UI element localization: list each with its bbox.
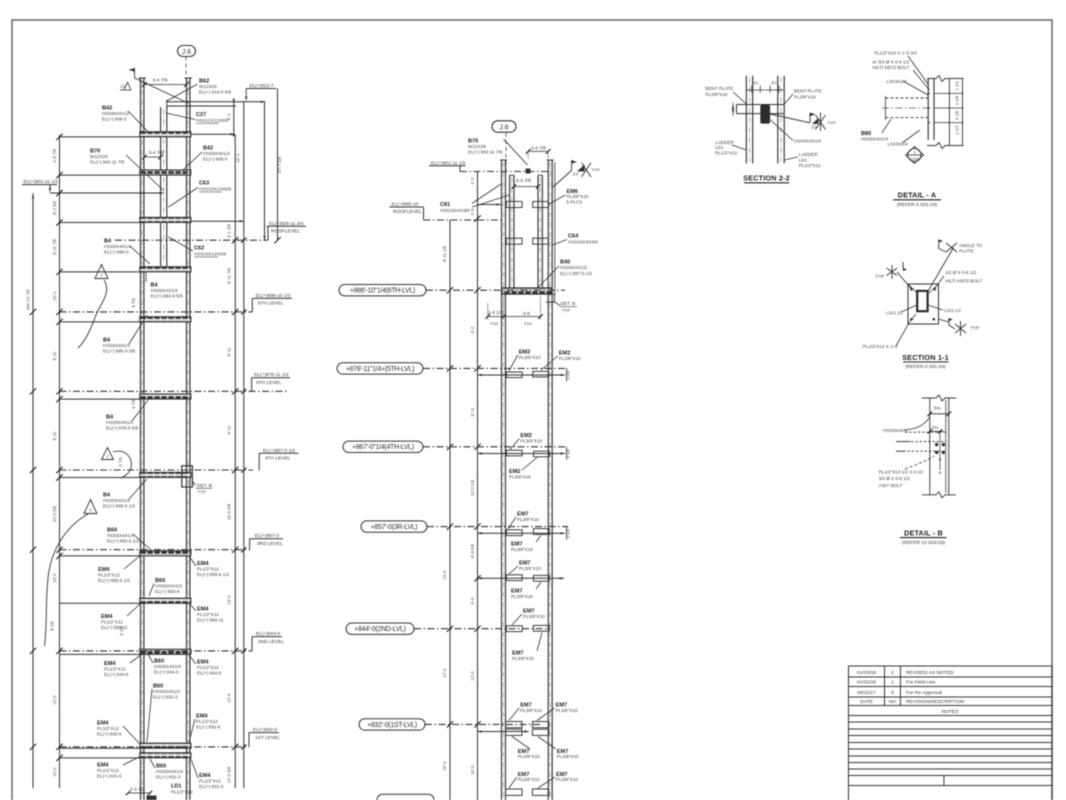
- level oval 2ND-LVL: [346, 623, 414, 634]
- plates EM7 at 2nd: [506, 626, 522, 632]
- svg-text:BENT PLATE: BENT PLATE: [705, 86, 733, 91]
- svg-text:HSS5X4X1/4: HSS5X4X1/4: [155, 584, 183, 589]
- svg-text:10'-0: 10'-0: [442, 761, 447, 771]
- svg-text:PL3/8"X10: PL3/8"X10: [520, 708, 542, 713]
- svg-text:9'-11: 9'-11: [227, 347, 232, 357]
- svg-text:EL(+) 892-6 5/8: EL(+) 892-6 5/8: [151, 294, 183, 299]
- svg-text:HSS16X4X3/8: HSS16X4X3/8: [440, 208, 470, 213]
- level oval 1ST-LVL: [359, 719, 425, 730]
- svg-text:EL(+) 896-0: EL(+) 896-0: [104, 250, 129, 255]
- column C27: [160, 107, 162, 132]
- middle column right chord: [547, 160, 549, 800]
- svg-text:2-4 7/8: 2-4 7/8: [516, 178, 531, 184]
- column C62 segment: [160, 223, 162, 267]
- svg-text:EL(+) 850-9: EL(+) 850-9: [155, 589, 180, 594]
- section 1-1 angle-to-plate leader: [928, 248, 954, 293]
- EM6 plates upper: [506, 202, 522, 208]
- section 1-1 corner bolts: [910, 288, 913, 291]
- svg-text:EL(+) 902-11 7/8: EL(+) 902-11 7/8: [468, 150, 503, 155]
- ladder LD1 rung block: [147, 796, 157, 800]
- detail A break lines: [927, 76, 964, 82]
- left extension lines at upper beams: [60, 136, 140, 138]
- DET B bracket middle: [546, 294, 555, 302]
- svg-text:PL1/2"X12: PL1/2"X12: [97, 726, 119, 731]
- svg-text:PL1/2"X12: PL1/2"X12: [101, 620, 123, 625]
- svg-text:PL3/8"X10: PL3/8"X10: [518, 754, 540, 759]
- detail B break lines: [922, 395, 956, 401]
- svg-text:16'-1: 16'-1: [52, 291, 57, 301]
- beam at 3rd: [140, 551, 191, 556]
- svg-text:1 1/2: 1 1/2: [955, 81, 960, 91]
- middle dimension chain x=450: [449, 220, 451, 800]
- svg-text:1ST LEVEL: 1ST LEVEL: [255, 735, 280, 741]
- detail A vertical plate: [927, 79, 929, 140]
- beam at 6th strut: [140, 267, 191, 272]
- svg-text:01/02/18: 01/02/18: [857, 680, 876, 686]
- svg-text:EL(+) 832-6: EL(+) 832-6: [196, 725, 221, 730]
- svg-text:+886'-10"1/4(6TH-LVL): +886'-10"1/4(6TH-LVL): [350, 288, 415, 295]
- svg-text:5 PLCS: 5 PLCS: [567, 199, 583, 204]
- bottom row divider: [943, 776, 945, 786]
- svg-text:EL(+) 875-6 5/8: EL(+) 875-6 5/8: [106, 426, 138, 431]
- beam below 6th: [140, 317, 191, 322]
- dash-dot level lines left elevation: [115, 239, 268, 241]
- svg-text:5TH LEVEL: 5TH LEVEL: [256, 380, 282, 386]
- middle column inner member right: [537, 175, 539, 288]
- svg-text:16'-1: 16'-1: [236, 153, 241, 163]
- svg-text:PL3/8"X10: PL3/8"X10: [511, 547, 533, 552]
- svg-text:PL1/2"X12: PL1/2"X12: [199, 779, 221, 784]
- beam at 4th with DET B box: [140, 472, 191, 477]
- beam at 5th: [140, 394, 191, 399]
- section 1-1 base plate: [908, 284, 939, 324]
- svg-text:PL3/8"X10: PL3/8"X10: [520, 439, 542, 444]
- svg-text:PL3/8"X10: PL3/8"X10: [519, 355, 541, 360]
- detail A column lines: [948, 79, 950, 146]
- svg-text:HSS12X12X5/8: HSS12X12X5/8: [199, 187, 232, 192]
- svg-text:10'-0 1/8: 10'-0 1/8: [470, 479, 475, 496]
- svg-text:PL3/8"X10: PL3/8"X10: [557, 754, 579, 759]
- column C63 segment: [160, 137, 162, 170]
- svg-text:12'-0: 12'-0: [52, 695, 57, 705]
- plates EM7 mid pair: [506, 575, 522, 581]
- section 2-2 weld symbol TYP: [770, 114, 810, 123]
- svg-text:12'-0: 12'-0: [227, 693, 232, 703]
- short right dim stubs: [566, 368, 568, 381]
- svg-text:TYP: TYP: [828, 121, 836, 126]
- svg-text:HSS5X4X1/4: HSS5X4X1/4: [103, 498, 131, 503]
- right dimension chain x=236: [233, 101, 235, 134]
- svg-text:DATE: DATE: [860, 699, 873, 705]
- svg-text:EL(+) 850-11: EL(+) 850-11: [197, 618, 224, 623]
- svg-text:8'-2 5/8: 8'-2 5/8: [52, 200, 57, 215]
- beam B42 at EL 909-0: [140, 132, 191, 137]
- beam B40 at 6th level: [502, 288, 552, 294]
- left column left chord: [139, 78, 141, 800]
- svg-text:HSS8X4X1/4: HSS8X4X1/4: [861, 137, 889, 142]
- section 1-1 HSS tube: [917, 291, 927, 311]
- right dimension line x=264: [264, 101, 266, 240]
- svg-text:8 1/8: 8 1/8: [119, 626, 124, 636]
- section 2-2 HSS6X4 tube: [760, 105, 770, 124]
- svg-text:EL(+) 844-5: EL(+) 844-5: [197, 671, 222, 676]
- svg-text:2¾: 2¾: [932, 425, 940, 431]
- svg-text:PL3/8"X10: PL3/8"X10: [519, 566, 541, 571]
- svg-text:0: 0: [891, 690, 894, 696]
- level oval 5TH-LVL: [337, 363, 423, 374]
- svg-text:1/2: 1/2: [120, 84, 126, 89]
- svg-text:PL3/8"X10: PL3/8"X10: [556, 777, 578, 782]
- svg-text:6 7/8: 6 7/8: [131, 399, 136, 409]
- dash-dot at EL 895-10 roof: [424, 219, 503, 221]
- svg-text:HSS5X4X1/4: HSS5X4X1/4: [103, 343, 131, 348]
- svg-text:NO: NO: [889, 699, 897, 705]
- svg-text:8'-11 1/8: 8'-11 1/8: [442, 245, 447, 262]
- revision table column dividers: [884, 666, 886, 706]
- beam below 3rd: [140, 598, 191, 603]
- beam below 1st: [140, 753, 191, 758]
- svg-text:+832'-0(1ST-LVL): +832'-0(1ST-LVL): [367, 722, 417, 729]
- svg-text:2ND LEVEL: 2ND LEVEL: [258, 639, 284, 645]
- plates EM2 at 5th: [506, 372, 522, 378]
- svg-text:13'-0: 13'-0: [442, 570, 447, 580]
- svg-text:EL(+) 831-6: EL(+) 831-6: [97, 774, 122, 779]
- title block revision table: [849, 665, 1053, 667]
- svg-text:8'-9 5/8: 8'-9 5/8: [470, 543, 475, 558]
- svg-text:PL1/2"X13 1/2 X 0-10: PL1/2"X13 1/2 X 0-10: [879, 470, 924, 475]
- plates EM7 at 1st stacked: [506, 722, 522, 728]
- svg-text:PL1/2"X12: PL1/2"X12: [715, 151, 737, 156]
- svg-text:4½: 4½: [753, 81, 759, 86]
- svg-text:HSS16X12X3/8: HSS16X12X3/8: [194, 252, 227, 257]
- svg-text:L3X3 1/2: L3X3 1/2: [886, 311, 903, 316]
- svg-text:2-4 7/8: 2-4 7/8: [531, 145, 546, 151]
- svg-text:1/2 Ø X 0-6 1/2: 1/2 Ø X 0-6 1/2: [945, 270, 977, 275]
- svg-text:L3X3 1/2: L3X3 1/2: [944, 308, 961, 313]
- svg-text:1 1/2: 1 1/2: [955, 125, 960, 135]
- svg-text:PL3/8"X10: PL3/8"X10: [705, 92, 727, 97]
- svg-text:4TH LEVEL: 4TH LEVEL: [265, 456, 291, 462]
- svg-text:ANGLE TO: ANGLE TO: [959, 243, 982, 248]
- svg-text:EL(+) 844-3: EL(+) 844-3: [154, 670, 179, 675]
- svg-text:LADDER: LADDER: [799, 152, 818, 157]
- svg-text:4'-9: 4'-9: [470, 208, 475, 216]
- dash-dot at EL 901-11: [460, 171, 551, 173]
- svg-text:EL(+) 856-6 1/2: EL(+) 856-6 1/2: [107, 539, 139, 544]
- svg-text:PL1/2"X12: PL1/2"X12: [104, 667, 126, 672]
- svg-text:L3X3X1/4: L3X3X1/4: [888, 142, 909, 147]
- svg-text:S28: S28: [911, 157, 919, 162]
- svg-text:EL(+) 855-6 1/2: EL(+) 855-6 1/2: [197, 572, 229, 577]
- svg-text:HILTI KBTZ BOLT: HILTI KBTZ BOLT: [945, 279, 982, 284]
- detail B column lines: [929, 398, 931, 495]
- arrow lines below levels middle column: [478, 374, 566, 376]
- level oval ground partial: [377, 794, 434, 800]
- svg-text:DETAIL - A: DETAIL - A: [898, 191, 937, 200]
- svg-text:PL3/8"X10: PL3/8"X10: [518, 777, 540, 782]
- svg-text:4-6: 4-6: [523, 311, 530, 317]
- svg-text:HSS8X4X1/2: HSS8X4X1/2: [102, 111, 130, 116]
- svg-text:EL(+) 832-3: EL(+) 832-3: [153, 695, 178, 700]
- svg-text:3 5/8: 3 5/8: [566, 370, 571, 380]
- level oval 6TH-LVL: [339, 285, 426, 296]
- svg-text:LD1: LD1: [799, 158, 808, 163]
- svg-text:(REFER-3 S01.04): (REFER-3 S01.04): [897, 202, 938, 208]
- middle column left chord: [501, 160, 503, 800]
- svg-text:HSS5X4X1/4: HSS5X4X1/4: [106, 420, 134, 425]
- revision triangle 2 lower: [84, 500, 97, 514]
- svg-text:ROOFLEVEL: ROOFLEVEL: [271, 229, 300, 235]
- svg-text:5¾: 5¾: [934, 406, 942, 412]
- beam at 1st: [140, 743, 191, 748]
- middle column inner member left: [509, 175, 511, 288]
- detail A keyplan bubble: [906, 147, 924, 164]
- svg-text:+844'-0(2ND-LVL): +844'-0(2ND-LVL): [354, 626, 405, 633]
- svg-text:TYP: TYP: [524, 322, 532, 327]
- svg-text:W12X26: W12X26: [199, 84, 217, 89]
- svg-text:09/11/17: 09/11/17: [857, 690, 876, 696]
- svg-text:+857'-0(3R-LVL): +857'-0(3R-LVL): [371, 524, 418, 531]
- middle dimension chain x=477.5: [477, 172, 479, 800]
- svg-text:W12X26: W12X26: [90, 154, 108, 159]
- svg-text:LADDER: LADDER: [715, 140, 734, 145]
- section 2-2 ladder rail left: [745, 76, 747, 164]
- svg-text:A307 BOLT: A307 BOLT: [879, 483, 903, 488]
- svg-text:(REFER-13 S03.03): (REFER-13 S03.03): [902, 540, 945, 546]
- svg-text:HSS8X4X¼: HSS8X4X¼: [883, 428, 908, 433]
- svg-text:3/4 Ø X 0-6 1/2: 3/4 Ø X 0-6 1/2: [879, 476, 911, 481]
- svg-text:4'-8 7/8: 4'-8 7/8: [52, 148, 57, 163]
- detail B bolts: [935, 443, 938, 446]
- svg-text:EL(+) 832-6: EL(+) 832-6: [97, 732, 122, 737]
- section 1-1 bottom right weld: [938, 319, 949, 322]
- right extension line below beam B42: [191, 133, 235, 135]
- detail A member B80 dashed: [886, 97, 929, 99]
- svg-text:13'-0: 13'-0: [52, 573, 57, 583]
- svg-text:5 7/8: 5 7/8: [118, 457, 123, 467]
- svg-text:HSS5X4X1/4: HSS5X4X1/4: [107, 533, 135, 538]
- svg-text:12'-0: 12'-0: [442, 668, 447, 678]
- section 2-2 bent plate: [737, 104, 784, 106]
- svg-text:9'-11: 9'-11: [52, 351, 57, 361]
- svg-text:PL1/2"X12: PL1/2"X12: [97, 768, 119, 773]
- svg-text:PL1/2"X12: PL1/2"X12: [799, 163, 821, 168]
- plates EM7 bottom: [506, 789, 522, 795]
- svg-text:TYP: TYP: [198, 489, 206, 494]
- section 2-2 top dims: [751, 86, 753, 94]
- svg-text:3 5/8: 3 5/8: [566, 448, 571, 458]
- svg-text:6'-6: 6'-6: [470, 597, 475, 605]
- svg-text:PL1/2"X12: PL1/2"X12: [197, 567, 219, 572]
- svg-text:4'-2: 4'-2: [227, 113, 232, 121]
- svg-text:PL3/8"X10: PL3/8"X10: [556, 708, 578, 713]
- svg-text:EL(+) 885-4 3/8: EL(+) 885-4 3/8: [103, 349, 135, 354]
- left column right chord: [185, 78, 187, 800]
- svg-text:W12X26: W12X26: [468, 144, 486, 149]
- svg-text:HSS8X4X1/2: HSS8X4X1/2: [560, 265, 588, 270]
- svg-text:1-1 1/2: 1-1 1/2: [130, 787, 145, 793]
- weld symbol TYP right of column top: [553, 171, 572, 188]
- svg-text:3-4 7/8: 3-4 7/8: [149, 150, 164, 156]
- svg-text:1: 1: [891, 680, 894, 686]
- svg-text:10'-0: 10'-0: [470, 765, 475, 775]
- svg-text:DET. B: DET. B: [561, 301, 576, 307]
- svg-text:HSS12X12X5/8: HSS12X12X5/8: [196, 118, 229, 123]
- level oval 4TH-LVL: [343, 441, 423, 452]
- right edge line: [554, 162, 556, 295]
- svg-text:J.6: J.6: [182, 49, 191, 56]
- beam at roof strut: [140, 217, 191, 222]
- svg-text:PL3/8"X10: PL3/8"X10: [512, 656, 534, 661]
- svg-text:6TH LEVEL: 6TH LEVEL: [258, 301, 284, 307]
- beam B62 top: [167, 101, 265, 103]
- svg-text:3 5/8: 3 5/8: [566, 528, 571, 538]
- svg-text:9'-11 7/8: 9'-11 7/8: [52, 238, 57, 255]
- grid bubble J.6 (middle elevation): [492, 121, 516, 132]
- svg-text:EL(+) 831-6: EL(+) 831-6: [199, 784, 224, 789]
- section 2-2 ladder rail right: [777, 76, 779, 164]
- weld flag at column top: [134, 68, 136, 78]
- right extension line at roof strut beam: [191, 220, 244, 222]
- dim 1-4 1/2 and 4-6 below B40: [487, 303, 489, 320]
- svg-text:9'-11 7/8: 9'-11 7/8: [227, 267, 232, 284]
- grid bubble J.6 (left elevation): [178, 46, 196, 57]
- svg-text:2: 2: [891, 670, 894, 676]
- left dimension chain x=33: [32, 193, 34, 788]
- detail B plate dashed lines: [905, 431, 946, 433]
- svg-text:12'-0: 12'-0: [470, 671, 475, 681]
- svg-text:LD1: LD1: [715, 145, 724, 150]
- svg-text:EL(+) 905-0: EL(+) 905-0: [203, 157, 228, 162]
- svg-text:(REFER-3 S01.04): (REFER-3 S01.04): [905, 364, 946, 370]
- svg-text:10'-0 5/8: 10'-0 5/8: [227, 503, 232, 520]
- right dimension line x=277.5: [277, 89, 279, 241]
- svg-text:TYP: TYP: [562, 308, 570, 313]
- svg-text:w/ 3/4 Ø X 0-6 1/2: w/ 3/4 Ø X 0-6 1/2: [872, 60, 909, 65]
- svg-text:J.6: J.6: [499, 125, 508, 132]
- line at EL 901-11 level: [50, 192, 164, 194]
- svg-text:9'-2: 9'-2: [470, 326, 475, 334]
- svg-text:164'-10 7/8: 164'-10 7/8: [26, 289, 31, 310]
- beam at 2nd: [140, 649, 191, 654]
- svg-text:01/03/18: 01/03/18: [857, 670, 876, 676]
- svg-text:TYP: TYP: [592, 168, 600, 173]
- svg-text:ROOFLEVEL: ROOFLEVEL: [393, 209, 422, 215]
- svg-text:13'-0: 13'-0: [227, 595, 232, 605]
- svg-text:HSS16X4X3/8: HSS16X4X3/8: [568, 240, 598, 245]
- svg-text:NOTES: NOTES: [942, 709, 960, 715]
- svg-text:PL1/2"X12: PL1/2"X12: [197, 665, 219, 670]
- svg-text:PL1/2"X12 X 1'-0: PL1/2"X12 X 1'-0: [863, 344, 898, 349]
- svg-text:PL1/2"X10 X 1'-0 3/4: PL1/2"X10 X 1'-0 3/4: [874, 51, 917, 56]
- svg-text:DETAIL - B: DETAIL - B: [904, 528, 943, 537]
- svg-text:PL3/8"X10: PL3/8"X10: [517, 517, 539, 522]
- svg-text:+867'-0"1/4(4TH-LVL): +867'-0"1/4(4TH-LVL): [352, 444, 414, 451]
- svg-text:SECTION 2-2: SECTION 2-2: [743, 174, 790, 183]
- svg-text:9'-11: 9'-11: [470, 407, 475, 417]
- svg-text:REVISED AS NOTED: REVISED AS NOTED: [906, 670, 954, 676]
- revision triangle 2 upper: [95, 265, 108, 279]
- level oval 3R-LVL: [361, 521, 427, 532]
- svg-text:EL(+) 844-5: EL(+) 844-5: [104, 672, 129, 677]
- svg-text:HSS6X4X1/4: HSS6X4X1/4: [794, 138, 822, 143]
- svg-text:4 1/8: 4 1/8: [955, 110, 960, 120]
- svg-text:4'-1 3/8: 4'-1 3/8: [227, 223, 232, 238]
- svg-text:1-4 1/2: 1-4 1/2: [488, 310, 503, 316]
- left extension lines at lower beams: [60, 271, 140, 273]
- svg-text:PL3/8"X10: PL3/8"X10: [523, 614, 545, 619]
- left dimension chain x=59.5: [59, 135, 61, 788]
- svg-text:3-4 7/8: 3-4 7/8: [153, 78, 168, 84]
- svg-text:EL(+) 865-5 1/2: EL(+) 865-5 1/2: [103, 504, 135, 509]
- svg-text:HSS8X4X1/2: HSS8X4X1/2: [203, 151, 231, 156]
- svg-text:PL1/2"X12: PL1/2"X12: [197, 612, 219, 617]
- svg-text:10'-0 5/8: 10'-0 5/8: [52, 505, 57, 522]
- svg-text:TYP: TYP: [875, 274, 884, 279]
- svg-text:HSS5X4X1/4: HSS5X4X1/4: [156, 769, 184, 774]
- plates EM2 at 4th: [506, 450, 522, 456]
- svg-text:4½: 4½: [771, 81, 777, 86]
- svg-text:PL3/8"X10: PL3/8"X10: [509, 475, 531, 480]
- svg-text:EL(+) 855-6 1/2: EL(+) 855-6 1/2: [98, 578, 130, 583]
- svg-text:For Field Use: For Field Use: [906, 680, 936, 686]
- svg-text:PLATE: PLATE: [959, 249, 973, 254]
- svg-text:1/2: 1/2: [811, 125, 817, 130]
- beam B42 at EL 905-0: [140, 170, 191, 175]
- svg-text:HILTI KBTZ BOLT: HILTI KBTZ BOLT: [872, 65, 909, 70]
- svg-text:+876'-11"1/4+(5TH-LVL): +876'-11"1/4+(5TH-LVL): [346, 366, 414, 373]
- svg-text:1/2: 1/2: [573, 172, 579, 177]
- svg-text:PL1/2"X12: PL1/2"X12: [98, 573, 120, 578]
- revision triangle 2 at 4th: [102, 448, 114, 460]
- svg-text:EL(+) 831-3: EL(+) 831-3: [156, 775, 181, 780]
- svg-text:TYP: TYP: [970, 326, 979, 331]
- svg-text:HSS5X4X1/4: HSS5X4X1/4: [153, 689, 181, 694]
- svg-text:3RD LEVEL: 3RD LEVEL: [257, 541, 283, 547]
- right dimension chain x=243.8: [243, 101, 245, 788]
- svg-text:HSS5X4X1/4: HSS5X4X1/4: [151, 288, 179, 293]
- svg-text:9'-11: 9'-11: [52, 431, 57, 441]
- svg-text:10'-0 3/8: 10'-0 3/8: [227, 766, 232, 783]
- svg-text:47'-7 5/8: 47'-7 5/8: [277, 156, 282, 173]
- svg-text:10'-0: 10'-0: [52, 767, 57, 777]
- svg-text:BENT PLATE: BENT PLATE: [794, 89, 822, 94]
- svg-text:PL3/8"X10: PL3/8"X10: [559, 356, 581, 361]
- svg-text:8 1/8: 8 1/8: [50, 621, 55, 631]
- svg-text:PL3/8"X10: PL3/8"X10: [511, 594, 533, 599]
- svg-text:EL(+) 887-0 1/2: EL(+) 887-0 1/2: [560, 271, 592, 276]
- svg-text:PL3/8"X10: PL3/8"X10: [794, 94, 816, 99]
- svg-text:For Re-Approval: For Re-Approval: [906, 690, 942, 696]
- svg-text:EL(+) 909-0: EL(+) 909-0: [102, 117, 127, 122]
- svg-text:4 1/8: 4 1/8: [955, 95, 960, 105]
- svg-text:8 7/8: 8 7/8: [131, 298, 136, 308]
- svg-text:EL(+) 902-11 7/8: EL(+) 902-11 7/8: [90, 160, 125, 165]
- svg-text:HSS5X4X1/4: HSS5X4X1/4: [104, 244, 132, 249]
- plates EM7 at 3rd: [506, 530, 522, 536]
- svg-text:9'-11: 9'-11: [227, 425, 232, 435]
- svg-text:TYP: TYP: [490, 322, 498, 327]
- svg-text:HSS5X4X1/4: HSS5X4X1/4: [154, 664, 182, 669]
- svg-text:REVISION/DESCRIPTION: REVISION/DESCRIPTION: [906, 699, 965, 705]
- svg-text:EL(+) 914-0 5/8: EL(+) 914-0 5/8: [199, 90, 231, 95]
- svg-text:SECTION 1-1: SECTION 1-1: [902, 353, 949, 362]
- svg-text:PL1/2"X12: PL1/2"X12: [171, 790, 193, 795]
- svg-text:PL1/2"X12: PL1/2"X12: [196, 719, 218, 724]
- svg-text:4'-2: 4'-2: [470, 177, 475, 185]
